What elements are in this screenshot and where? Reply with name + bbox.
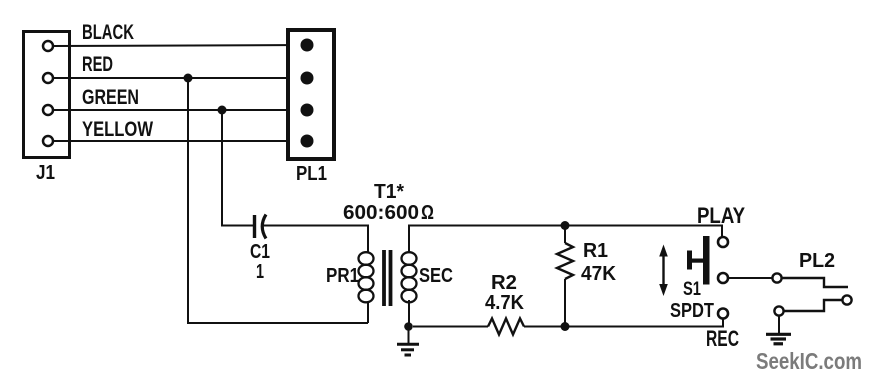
wire R2 to R1 bottom node bbox=[524, 326, 565, 328]
svg-text:C1: C1 bbox=[250, 241, 270, 263]
terminal circle sleeve end bbox=[842, 295, 851, 304]
wire bottom rail right (node to R2 to R1 bottom to REC contact) bbox=[413, 326, 488, 328]
svg-text:J1: J1 bbox=[36, 162, 55, 184]
wire from RED node down to bottom rail bbox=[188, 78, 368, 323]
svg-text:SPDT: SPDT bbox=[670, 300, 714, 322]
plug PL2 sleeve prong bbox=[784, 300, 842, 311]
svg-text:SeekIC.com: SeekIC.com bbox=[756, 348, 862, 374]
node on GREEN wire bbox=[218, 106, 227, 115]
transformer T1 primary winding PR1 bbox=[359, 252, 374, 302]
svg-text:PR1: PR1 bbox=[326, 265, 359, 287]
ground below PL2 sleeve bbox=[766, 317, 791, 344]
wire secondary bottom to node bbox=[408, 300, 410, 327]
svg-text:GREEN: GREEN bbox=[82, 86, 139, 109]
svg-text:BLACK: BLACK bbox=[82, 21, 134, 44]
wire common contact to PL2 tip bbox=[728, 277, 772, 279]
switch S1 direction arrow bbox=[659, 245, 668, 297]
svg-text:YELLOW: YELLOW bbox=[82, 118, 153, 141]
node on RED wire bbox=[184, 74, 193, 83]
svg-text:SEC: SEC bbox=[419, 265, 453, 287]
switch S1 lever bbox=[687, 251, 703, 270]
wire from GREEN node down to C1 bbox=[222, 110, 253, 226]
capacitor C1 bbox=[255, 215, 267, 239]
svg-text:RED: RED bbox=[82, 53, 113, 76]
svg-text:PLAY: PLAY bbox=[697, 203, 745, 228]
transformer T1 core bbox=[384, 250, 391, 306]
ground below transformer bbox=[397, 327, 419, 356]
wire R1 bottom to REC contact bbox=[565, 319, 723, 327]
svg-text:S1: S1 bbox=[683, 279, 701, 300]
switch S1 actuator bar bbox=[703, 236, 710, 285]
REC contact bbox=[718, 309, 728, 319]
svg-text:R2: R2 bbox=[491, 272, 517, 294]
wire C1 to transformer primary top bbox=[262, 226, 368, 254]
plug PL2 tip prong bbox=[782, 278, 848, 287]
node R1 bottom bbox=[561, 322, 570, 331]
terminal circle tip bbox=[772, 273, 781, 282]
svg-text:PL2: PL2 bbox=[799, 250, 835, 272]
connector J1 bbox=[24, 32, 70, 158]
svg-text:REC: REC bbox=[706, 326, 739, 351]
resistor R2 bbox=[488, 319, 524, 335]
wire YELLOW row bbox=[53, 140, 307, 142]
svg-text:Ω: Ω bbox=[421, 202, 434, 224]
svg-text:PL1: PL1 bbox=[296, 163, 327, 185]
svg-text:1: 1 bbox=[256, 261, 264, 283]
svg-text:600:600: 600:600 bbox=[343, 202, 419, 224]
PLAY contact bbox=[718, 237, 728, 247]
wire RED row bbox=[53, 77, 307, 79]
node at secondary bottom bbox=[404, 322, 413, 331]
wire bottom rail up to primary bottom bbox=[367, 301, 369, 323]
transformer T1 secondary winding SEC bbox=[402, 252, 417, 302]
wire secondary top to PLAY contact bbox=[409, 226, 722, 254]
resistor R1 bbox=[557, 226, 573, 327]
wire BLACK row bbox=[53, 45, 307, 46]
common contact bbox=[718, 273, 728, 283]
svg-text:47K: 47K bbox=[581, 263, 617, 285]
svg-text:4.7K: 4.7K bbox=[485, 292, 525, 314]
node R1 top bbox=[561, 221, 570, 230]
wire GREEN row bbox=[53, 109, 307, 111]
plug PL1 bbox=[288, 30, 334, 159]
terminal circle sleeve bbox=[774, 306, 783, 315]
svg-text:T1*: T1* bbox=[374, 181, 404, 203]
svg-text:R1: R1 bbox=[583, 240, 608, 262]
